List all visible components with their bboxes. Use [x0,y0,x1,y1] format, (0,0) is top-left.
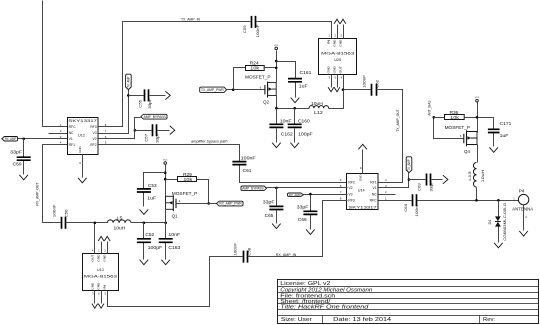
svg-text:RFC: RFC [69,125,77,129]
wire U13 top GND pins [102,242,108,254]
svg-text:100nF: 100nF [233,242,238,256]
svg-text:33pF: 33pF [297,205,309,210]
power flag VCC Q1 [164,162,167,165]
svg-text:MGA-81563: MGA-81563 [321,50,355,55]
wire R36 right leg [465,117,478,119]
amplifier U13 MGA-81563 [83,254,119,291]
svg-text:GND: GND [333,39,337,47]
svg-text:V1: V1 [69,137,73,141]
capacitor C57 [153,124,157,136]
wire L5 to Q1 drain [132,222,166,224]
svg-text:1uF: 1uF [500,133,509,138]
resistor R36 [445,115,465,120]
svg-text:AMP_BYPASS: AMP_BYPASS [144,115,166,119]
svg-text:Q4: Q4 [464,149,470,154]
node C53 tap [164,171,167,174]
label TX_AMP [126,74,132,89]
ground C52 [140,260,149,265]
node TX_AMP ctl [127,94,130,97]
svg-text:C65: C65 [265,213,274,218]
svg-text:C55: C55 [138,99,143,108]
node Q4 source rail [476,116,479,119]
wire TX_AMP tag to U14 V1 [379,173,409,188]
svg-text:C161: C161 [300,70,312,75]
svg-text:AMP_BYPASS: AMP_BYPASS [242,186,263,190]
ground C57 [170,126,175,135]
wire Q1 drain [165,210,167,223]
svg-text:C63: C63 [416,182,421,191]
wire U12 RF1 down to C50 [43,145,68,223]
wire U25 top GND pins [338,25,344,39]
svg-text:C53: C53 [148,183,157,188]
wire Q1 gate to tag [177,203,217,205]
svg-text:RFC: RFC [370,199,378,203]
ground U13 top b [104,236,110,241]
node C52 tap [143,222,146,225]
svg-text:TX_AMP: TX_AMP [407,159,411,170]
wire C64 to antenna [418,200,519,202]
svg-text:VCC: VCC [163,159,168,161]
wire U12 V3 to TX_AMP tag [99,90,129,134]
svg-text:C163: C163 [168,245,180,250]
ground C60 [19,175,28,180]
svg-text:1uF: 1uF [147,195,156,200]
wire NC stub U14 [379,194,396,196]
node Q2 drain rail [275,107,278,110]
svg-text:IN: IN [103,285,107,290]
node Q1 gate [207,202,210,205]
wire R24 left leg [234,68,246,90]
wire U25 out down to L12 [329,90,344,109]
svg-text:C171: C171 [500,121,512,126]
wire U12 GND pin [82,155,84,178]
inductor L12 [309,106,329,109]
svg-text:RF3: RF3 [90,125,97,129]
wire VCC to Q4 source [477,103,479,133]
node U25 out [342,88,345,91]
wire C65 leads [276,188,278,224]
svg-text:RX_AMP_IN: RX_AMP_IN [276,253,297,257]
svg-text:RF2: RF2 [90,143,97,147]
wire U12 V2 up [99,131,135,139]
svg-text:TX_AMP_OUT: TX_AMP_OUT [396,109,400,132]
svg-text:RF1: RF1 [69,143,76,147]
svg-text:MOSFET_P: MOSFET_P [172,191,198,196]
wire VCC rail Q1 [165,165,167,198]
capacitor C171 [488,129,500,132]
wire VCC to Q2 source [276,51,278,83]
inductor L13 [473,163,476,187]
svg-text:100pF: 100pF [298,132,313,137]
capacitor C52 [137,239,151,243]
wire U13 OUT up [94,223,96,254]
svg-text:C59: C59 [242,25,247,34]
wire TX_AMP_PWR to Q2 gate [227,89,265,91]
capacitor C64 [413,194,417,206]
wire Q2 drain [276,96,278,109]
svg-text:10uH: 10uH [480,170,485,183]
label TX_AMP right [406,157,412,173]
inductor L5 [107,220,131,223]
svg-text:ANTENNA: ANTENNA [512,206,533,211]
ground C161 [291,98,300,103]
wire C60 leads [23,139,25,175]
capacitor C50 [62,217,66,229]
svg-text:OUT: OUT [90,254,94,261]
svg-text:Size: User: Size: User [281,317,312,323]
svg-text:RX_AMP: RX_AMP [5,137,17,141]
svg-text:C62: C62 [375,79,380,88]
wire TX_AMP_OUT [377,90,403,183]
ground C53 [140,209,149,214]
ground C163 [161,260,170,265]
svg-text:ANT_BIAS: ANT_BIAS [427,100,431,116]
node C160 tap [293,107,296,110]
svg-text:SKY13317: SKY13317 [348,205,377,210]
capacitor C62 [372,84,377,96]
svg-text:100nF: 100nF [362,74,367,88]
capacitor C66 [303,211,317,214]
node C65 tap [275,187,278,190]
ground U25 bot a [328,87,334,92]
ground C55 [165,91,170,100]
svg-text:C50: C50 [64,209,69,218]
wire C61 to U14 RF2 [240,166,348,183]
svg-text:amplifier bypass path: amplifier bypass path [191,140,228,144]
svg-text:V2: V2 [348,186,352,190]
label RX_AMP_PWR [217,201,244,206]
ground U12 [78,178,87,183]
svg-text:RX_AMP_PWR: RX_AMP_PWR [219,202,242,206]
svg-text:RX_AMP_OUT: RX_AMP_OUT [35,183,39,206]
transistor Q1 MOSFET_P [175,199,177,208]
node R29 tap [164,178,167,181]
connector P4 ANTENNA [518,194,528,204]
wire C161 leads [277,62,296,98]
power flag VCC Q4 [476,99,479,102]
svg-text:OUT: OUT [339,66,343,73]
capacitor C162 [269,124,283,127]
svg-text:10k: 10k [183,177,193,182]
label TX_AMP_PWR [200,87,227,92]
svg-text:U13: U13 [97,268,104,272]
wire C163 leads [165,223,167,260]
label RX_AMP right [288,193,304,196]
node ANT_BIAS [433,116,436,119]
capacitor C53 [137,189,151,192]
svg-text:33pF: 33pF [429,180,434,191]
svg-text:C60: C60 [13,162,22,167]
ground D1 [494,243,503,248]
wire C50 to L5 [66,222,108,224]
wire P4 shield [523,205,525,231]
node C161 tap [275,60,278,63]
svg-text:C57: C57 [144,133,149,142]
node Q2 gate [232,88,235,91]
svg-text:L13: L13 [467,170,472,181]
svg-text:33pF: 33pF [147,98,152,109]
wire to AMP_BYPASS tag [135,118,141,131]
wire R29 left leg [166,179,178,181]
wire U25 bottom GND pins [332,75,338,88]
wire L13 down [476,188,478,201]
wire U13 bottom GND pins [95,291,102,304]
wire L12 to Q2 drain [277,108,310,110]
wire C53 leads [144,173,166,207]
wire ANT_BIAS to Q4 gate [434,118,464,139]
svg-text:U25: U25 [334,58,341,62]
svg-text:33pF: 33pF [10,150,22,155]
ground U13 bot a [92,304,98,309]
wire C59 to U25 IN [257,22,332,39]
svg-text:CG0603MLC-05LG: CG0603MLC-05LG [502,203,507,241]
capacitor C60 [17,157,31,160]
svg-text:P4: P4 [519,188,526,193]
power flag VCC Q2 [275,47,278,50]
node C66 tap [309,193,312,196]
svg-text:NC: NC [69,131,74,135]
capacitor C163 [159,239,173,243]
wire to C62 [344,89,372,91]
svg-text:100nF: 100nF [52,204,57,218]
wire U12 RF3 to TX_AMP_IN [99,22,251,127]
svg-text:GND: GND [103,254,107,262]
label RX_AMP [2,137,18,142]
svg-text:TX_AMP: TX_AMP [127,77,131,88]
svg-text:RF2: RF2 [348,180,355,184]
svg-text:10nF: 10nF [168,232,180,237]
svg-text:Q2: Q2 [263,99,269,104]
resistor R29 [178,177,197,182]
node Q1 drain rail [164,222,167,225]
transistor Q4 MOSFET_P [463,134,465,143]
ground U13 bot b [98,304,104,309]
svg-text:R36: R36 [450,110,459,115]
svg-text:C52: C52 [145,232,154,237]
svg-text:V3: V3 [348,192,352,196]
ground C63 [443,175,448,184]
wire C160 leads [294,109,296,143]
wire D1 bottom [498,227,500,243]
svg-text:Title: HackRF One frontend: Title: HackRF One frontend [280,305,368,311]
capacitor C65 [269,206,283,209]
svg-text:10k: 10k [450,115,460,120]
svg-text:MOSFET_P: MOSFET_P [445,125,471,130]
svg-text:RF1: RF1 [370,180,377,184]
node AMP_BYPASS ctl [134,129,137,132]
svg-text:10uH: 10uH [114,226,126,231]
capacitor C161 [288,79,302,82]
ground C160 [290,143,299,148]
svg-text:10nF: 10nF [280,119,292,124]
svg-text:U12: U12 [78,134,85,138]
wire C52 leads [143,223,145,260]
wire bypass path to C61 [99,145,240,162]
svg-text:100nF: 100nF [241,155,256,160]
wire D1 top [498,201,500,217]
svg-text:VCC: VCC [475,97,480,99]
wire C57 [135,130,170,132]
title block [278,280,539,324]
svg-text:IN: IN [327,40,331,45]
wire R36 left leg [434,117,445,119]
ground U13 top a [98,236,104,241]
resistor R24 [246,66,265,71]
svg-text:10uH: 10uH [311,101,323,106]
capacitor C55 [145,89,149,101]
wire NC stub U12 pin2 [49,133,68,135]
svg-text:L5: L5 [117,215,124,220]
svg-text:U14: U14 [358,188,365,192]
wire U14 RF3 to C58 [249,201,348,257]
svg-text:10k: 10k [250,66,260,71]
wire RX_AMP to U12 pin3 [18,138,68,140]
svg-text:V2: V2 [92,137,96,141]
ground U25 top b [340,19,346,24]
svg-text:Date: 13 feb 2014: Date: 13 feb 2014 [333,317,391,323]
ground C171 [489,147,498,152]
wire RFC to U12 pin1 [43,1,68,127]
node R24 tap [275,67,278,70]
svg-text:GND: GND [339,39,343,47]
svg-text:VCC: VCC [274,45,279,47]
svg-text:GND: GND [78,146,82,152]
wire U25 OUT [343,75,345,90]
svg-text:GND: GND [90,282,94,290]
svg-text:GND: GND [333,65,337,73]
wire C66 leads [310,195,312,230]
svg-text:License: GPL v2: License: GPL v2 [280,281,330,287]
svg-text:C162: C162 [281,132,293,137]
svg-text:SKY13317: SKY13317 [68,118,97,123]
wire AMP_BYPASS to U14 V2 [267,187,348,189]
capacitor C59 [252,16,256,28]
ground U25 top a [334,19,340,24]
svg-text:33pF: 33pF [155,132,160,143]
svg-text:100nF: 100nF [255,24,260,38]
svg-text:GND: GND [97,254,101,262]
transistor Q2 MOSFET_P [264,85,266,94]
wire C63 [409,179,443,181]
wire R29 right leg [197,180,209,204]
wire R24 right leg [264,67,277,69]
svg-text:100nF: 100nF [414,203,419,217]
wire U14 RFC to C64 [379,200,412,202]
ground U25 bot b [334,87,340,92]
svg-text:C64: C64 [403,203,408,212]
capacitor C61 [232,162,246,165]
diode D1 [495,216,501,221]
wire U14 GND pin [362,150,364,174]
svg-text:1uF: 1uF [299,83,308,88]
node RX_AMP junction [22,138,25,141]
svg-text:TX_AMP_IN: TX_AMP_IN [181,17,200,22]
capacitor C58 [244,251,248,263]
ground C65 [272,224,281,229]
wire C162 leads [276,109,278,143]
switch U14 SKY13317 [347,174,379,210]
svg-text:L12: L12 [314,110,324,115]
svg-text:MGA-81563: MGA-81563 [84,274,118,279]
amplifier U25 MGA-81563 [319,39,357,75]
svg-text:GND: GND [359,175,363,181]
wire RX_AMP to U14 V3 [304,194,348,196]
svg-text:Rev:: Rev: [483,317,495,323]
svg-text:RF3: RF3 [348,199,355,203]
wire C55 [129,95,166,97]
node D1 tap [497,199,500,202]
ground U14 [358,144,367,149]
svg-text:TX_AMP_PWR: TX_AMP_PWR [201,88,224,92]
svg-text:C61: C61 [243,168,252,173]
capacitor C63 [427,174,431,186]
svg-text:C66: C66 [298,217,307,222]
wire Q4 drain to L13 [477,145,479,163]
label AMP_BYPASS [141,114,167,119]
svg-text:RX_AMP: RX_AMP [289,193,301,197]
node L13 tap [475,199,478,202]
svg-text:C160: C160 [298,119,310,124]
capacitor C160 [288,124,302,127]
ground C66 [306,229,315,234]
node U13 out tap [94,222,97,225]
svg-text:MOSFET_P: MOSFET_P [245,75,271,80]
svg-text:Q1: Q1 [172,213,178,218]
svg-text:GND: GND [97,282,101,290]
ground P4 [519,231,528,236]
svg-text:V3: V3 [92,131,96,135]
label AMP_BYPASS right [241,186,267,191]
svg-text:C58: C58 [247,247,252,256]
wire C171 leads [478,118,494,147]
svg-text:V1: V1 [372,186,376,190]
svg-text:100pF: 100pF [148,245,163,250]
wire C58 to U13 IN [108,257,243,307]
svg-text:33pF: 33pF [263,200,275,205]
node TX_AMP ctl right [408,178,411,181]
svg-text:GND: GND [327,65,331,73]
svg-text:NC: NC [372,192,377,196]
switch U12 SKY13317 [68,118,99,155]
svg-text:D1: D1 [487,219,492,225]
ground C162 [272,143,281,148]
